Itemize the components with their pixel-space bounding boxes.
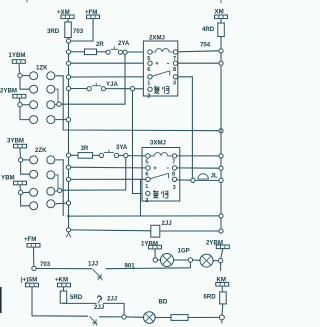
bell JL (198, 173, 218, 180)
wire row C to pin 6 (71, 62, 148, 64)
svg-text:+KM: +KM (55, 276, 68, 283)
wire SM down and right (32, 287, 88, 316)
svg-text:3XMJ: 3XMJ (150, 140, 166, 147)
svg-text:1GP: 1GP (178, 248, 190, 255)
node right pin7 row (219, 49, 223, 53)
node 703 bottom (32, 266, 36, 270)
junction circle 2ZK row3 (57, 188, 61, 192)
wire 5RD to 2JJ upper contact (64, 302, 97, 304)
1ZK left circle row3 (30, 101, 38, 109)
resistor 5RD (60, 291, 83, 303)
wire V1 drop from 2YA to junction row (61, 54, 125, 104)
resistor 4RD (202, 23, 224, 37)
svg-text:3: 3 (173, 81, 176, 87)
svg-text:2: 2 (147, 93, 150, 99)
svg-text:2: 2 (145, 198, 148, 204)
node 1GP junction (188, 258, 192, 262)
svg-text:2R: 2R (96, 41, 104, 48)
wire row D to pin 1 (71, 76, 148, 78)
node H right end (219, 129, 223, 133)
svg-text:3: 3 (173, 185, 176, 191)
node D pin1 row (66, 75, 70, 79)
wire 2YA to pin5 (127, 51, 147, 53)
node YBM (18, 190, 22, 194)
2ZK right circle row3 (47, 187, 55, 195)
wire stub below lamp node (220, 263, 222, 271)
wire YJA to pin2 (106, 88, 148, 90)
wire 1ZK c2 link (55, 89, 58, 102)
3XMJ pin 1 (145, 177, 150, 190)
node bell junction (191, 178, 195, 182)
2ZK right circle row2 (47, 171, 55, 179)
node A 703 (66, 39, 70, 43)
relay 3XMJ box (142, 140, 180, 202)
wire 3XMJ pin3 to bell junction (177, 179, 191, 181)
resistor 3R (78, 145, 93, 158)
svg-text:2JJ: 2JJ (107, 296, 117, 303)
node right pin7b row (219, 154, 223, 158)
terminal block 2YBM (13, 94, 26, 98)
node lamp row right (218, 258, 222, 262)
wire resistor to node (188, 316, 220, 318)
terminal block KM (216, 283, 229, 287)
resistor 2R (85, 41, 105, 55)
svg-text:3R: 3R (81, 145, 89, 152)
relay 2XMJ box (143, 35, 177, 97)
wire junction row L to V3 (62, 189, 126, 191)
svg-text:901: 901 (125, 263, 136, 270)
svg-text:3YBM: 3YBM (7, 138, 24, 145)
svg-text:5RD: 5RD (70, 294, 83, 301)
wire 2XMJ pin7 to right bus (178, 51, 219, 52)
wire V2 drop junction to 3XMJ pin2 (133, 91, 146, 194)
svg-text:YBM: YBM (1, 175, 15, 182)
3XMJ pin 2 (145, 191, 150, 204)
wire FM bottom to node (33, 247, 35, 266)
node E YJA row (66, 86, 70, 90)
lamp 1GP left (161, 254, 174, 267)
svg-text:JL: JL (211, 173, 218, 180)
wire bell row (195, 179, 219, 181)
terminal block +XM (61, 15, 74, 19)
3XMJ pin 7 (172, 154, 177, 166)
1ZK right circle row2 (47, 85, 55, 93)
2XMJ pin 2 (147, 87, 152, 99)
svg-text:2YA: 2YA (118, 40, 130, 47)
wire 901 row (106, 262, 191, 269)
2XMJ pin 5 (147, 50, 152, 62)
node 1YBM (18, 73, 22, 77)
terminal block XM right (215, 15, 228, 19)
1ZK left circle row1 (30, 72, 38, 80)
wire to lamp1 (158, 259, 161, 261)
node right bell row (219, 178, 223, 182)
2XMJ polarity minus (167, 62, 169, 64)
wire 3R to 3YA (93, 154, 100, 156)
wire YBM to node (19, 185, 21, 191)
wire KM to 6RD (221, 286, 224, 292)
1ZK right circle row3 (47, 101, 55, 109)
node right row O (219, 229, 223, 233)
left bus vertical (68, 39, 70, 232)
wire 1YBM down to lamp row (154, 249, 156, 258)
terminal block 2YBM bottom (216, 245, 229, 249)
2XMJ contact blade 1-3 (152, 71, 170, 76)
svg-text:1JJ: 1JJ (88, 261, 98, 268)
svg-text:2ZK: 2ZK (35, 147, 47, 154)
wire node to circle row3 (22, 104, 29, 106)
wire coil to right bus (160, 230, 219, 232)
node C pin6 row (66, 61, 70, 65)
wire 2YBM to lamp node (221, 249, 223, 259)
node bottom right (221, 320, 223, 324)
2ZK left circle row3 (30, 188, 38, 196)
svg-text:2XMJ: 2XMJ (149, 35, 165, 42)
2ZK left circle row4 (30, 202, 38, 210)
svg-text:BD: BD (159, 299, 168, 306)
contact 2JJ lower (90, 304, 105, 326)
node O coil row left (66, 228, 70, 232)
scan tick top left (26, 0, 28, 2)
wire node down to row4 (21, 195, 30, 206)
1ZK left circle row4 (30, 116, 38, 124)
terminal block +FM (87, 15, 100, 19)
wire node down to row2 (21, 162, 30, 174)
contact 2YA (106, 40, 130, 54)
wire junction to lamp2 (193, 259, 200, 261)
bus +XM terminal label (57, 9, 70, 16)
1ZK left circle row2 (30, 85, 38, 93)
resistor 6RD (204, 292, 227, 304)
wire node to circle row1 (22, 75, 29, 77)
junction dot row N (67, 215, 70, 218)
node YJA junction (130, 87, 134, 91)
2XMJ reset glyphs fu-gui (154, 86, 169, 94)
wire 3XMJ pin8 to right bus (177, 167, 219, 169)
wire BD to resistor (155, 317, 171, 319)
node 2YBM (18, 103, 22, 107)
terminal block +FM bottom (27, 244, 40, 248)
wire 2ZK c2 link (55, 175, 58, 188)
node I 3R row (66, 153, 70, 157)
2XMJ coil between 5 and 7 (152, 49, 173, 52)
svg-text:7: 7 (172, 160, 175, 166)
wire row 703 to 1JJ (36, 268, 92, 270)
node M 2ZK c4 row (66, 201, 70, 205)
terminal block 1YBM (12, 60, 25, 64)
junction circle F left (57, 102, 61, 106)
scan tick top right (220, 0, 222, 3)
2ZK left circle row1 (30, 156, 38, 164)
contact 3YA (99, 144, 128, 158)
wire V4 drop to row N (140, 179, 142, 216)
3XMJ pin 3 (172, 177, 176, 191)
node K pin1b row (66, 177, 70, 181)
1ZK right circle row4 (47, 116, 55, 124)
wire node to 2ZK row3 (23, 191, 29, 193)
relay coil 2JJ (151, 220, 172, 237)
node lamp row left (153, 258, 157, 262)
terminal block 3YBM (14, 144, 27, 148)
svg-text:703: 703 (40, 261, 51, 268)
wire row K to 3XMJ pin1 (71, 178, 146, 180)
3XMJ pin 5 (145, 154, 150, 166)
lamp 1GP right (200, 254, 213, 267)
bus end fork (66, 232, 71, 238)
wire FM drop to node A (69, 19, 94, 41)
wire 2XMJ pin8 to right bus (178, 62, 219, 64)
svg-text:2YBM: 2YBM (0, 88, 17, 95)
wire 3XMJ pin7 to right bus (177, 155, 219, 157)
svg-text:6: 6 (147, 67, 150, 73)
wire upper contact to drop (103, 303, 124, 314)
svg-text:4RD: 4RD (202, 26, 215, 33)
wire row J to 3XMJ pin6 (71, 166, 146, 169)
wire 1ZK c1 drop long row H (55, 76, 221, 131)
3XMJ pin 6 (145, 166, 150, 178)
3XMJ reset glyphs fu-gui (153, 190, 168, 198)
wire 2R to 2YA (97, 51, 107, 53)
3XMJ contact blade 1-3 (150, 173, 169, 178)
svg-text:3YA: 3YA (116, 144, 128, 151)
svg-text:1ZK: 1ZK (36, 65, 48, 72)
terminal block 1YBM bottom (149, 245, 162, 249)
wire row E (71, 88, 87, 90)
wire 6RD to node (221, 304, 224, 315)
svg-text:1YBM: 1YBM (9, 52, 26, 59)
terminal block YBM (14, 181, 27, 185)
node J pin6b row (66, 165, 70, 169)
resistor BD row (171, 315, 188, 321)
wire 1ZK c4 to bus (55, 119, 66, 121)
node right row N (219, 214, 223, 218)
wire KM to 5RD (63, 287, 65, 291)
wire lamp2 to node (213, 260, 218, 262)
svg-text:1: 1 (147, 81, 150, 87)
wire 3YA to 3XMJ pin5 (128, 155, 146, 157)
2XMJ pin 1 (147, 75, 152, 87)
wire 3YBM to node (19, 148, 21, 158)
3XMJ coil between 5 and 7 (150, 153, 172, 156)
wire junction to BD lamp (126, 316, 143, 318)
wire lower row to junction (99, 316, 122, 318)
2ZK left circle row2 (30, 170, 38, 178)
svg-text:+FM: +FM (24, 236, 36, 243)
svg-text:3RD: 3RD (47, 28, 60, 35)
wire row B (71, 51, 85, 53)
2XMJ polarity plus (156, 62, 159, 65)
wire 2YBM to node (18, 98, 21, 103)
terminal block (+)SM (26, 283, 39, 287)
node right pin8 row (219, 61, 223, 65)
svg-text:2JJ: 2JJ (162, 220, 172, 227)
wire node down to row4 (20, 107, 29, 120)
wire 2ZK c4 to bus (55, 202, 66, 205)
3XMJ pin 8 (172, 166, 177, 178)
wire row I (71, 154, 78, 156)
svg-text:YJA: YJA (106, 81, 118, 88)
svg-text:8: 8 (173, 67, 176, 73)
2XMJ pin 7 (173, 50, 178, 62)
2ZK right circle row4 (47, 200, 55, 208)
terminal block +KM bottom (58, 283, 71, 287)
node B (66, 50, 70, 54)
right bus vertical (220, 19, 222, 231)
node G row 1ZK c4 (66, 118, 70, 122)
contact YJA (87, 81, 118, 91)
svg-text:(+)SM: (+)SM (21, 276, 38, 283)
svg-text:1: 1 (145, 184, 148, 190)
wire 2ZK c1 drop (55, 160, 63, 216)
2XMJ pin 8 (173, 61, 178, 73)
wire 1ZK c3 link (55, 103, 57, 105)
2XMJ pin 3 (173, 75, 178, 87)
svg-text:703: 703 (73, 28, 84, 35)
contact 1JJ (88, 261, 102, 281)
bus +FM terminal label (85, 9, 97, 16)
node 3YBM (18, 158, 22, 162)
wire row N long (69, 215, 220, 217)
wire lamp1 to junction (174, 259, 189, 261)
svg-text:6RD: 6RD (204, 294, 217, 301)
resistor 3RD (47, 19, 71, 41)
scan edge artifact left (0, 287, 2, 313)
wire node down to row2 (20, 78, 29, 89)
svg-text:XM: XM (215, 9, 224, 16)
2ZK right circle row1 (47, 156, 55, 164)
svg-text:2JJ: 2JJ (94, 304, 104, 311)
svg-text:5: 5 (145, 160, 148, 166)
wire 2XMJ pin3 to bell drop (178, 77, 193, 180)
wire row O to coil (71, 229, 151, 232)
3XMJ polarity minus (167, 167, 169, 169)
contact 2JJ upper (97, 295, 117, 303)
2XMJ pin 6 (147, 61, 152, 73)
1ZK right circle row1 (47, 72, 55, 80)
wire V3 drop from 3YA to junction row (125, 158, 127, 190)
svg-text:704: 704 (200, 42, 211, 49)
node right pin8b row (219, 166, 223, 170)
3XMJ polarity plus (154, 166, 157, 169)
node 2JJ junction (122, 315, 126, 319)
wire 2ZK c3 to junction (55, 190, 57, 193)
wire 1YBM to node (18, 63, 21, 73)
wire node to 2ZK row1 (23, 159, 29, 161)
lamp BD (144, 299, 168, 324)
